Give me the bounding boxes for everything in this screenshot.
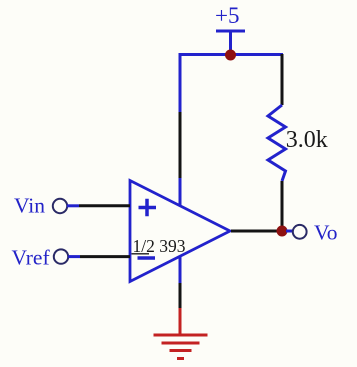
wire: op-amp V+ pin (blue upper) <box>179 53 182 112</box>
wire: Vin to op-amp (black) <box>79 204 130 207</box>
junction dot on +5 rail <box>225 50 236 61</box>
wire: +5 stub down to rail <box>229 31 232 55</box>
junction dot at output node <box>277 226 288 237</box>
resistor R1 zigzag <box>268 105 286 181</box>
terminal Vo <box>293 225 307 239</box>
svg-text:1/2 393: 1/2 393 <box>133 236 186 256</box>
svg-text:3.0k: 3.0k <box>286 127 328 153</box>
svg-text:Vref: Vref <box>12 246 51 270</box>
wire: bottom feed (black) <box>179 283 182 308</box>
wire: op-amp V- pin (blue lower) <box>179 257 182 284</box>
wire: op-amp output to node (black) <box>231 230 282 233</box>
wire: Vref pin stub (blue) <box>68 255 80 258</box>
svg-text:Vo: Vo <box>314 221 338 245</box>
plus input marker <box>139 199 157 216</box>
wire: ground lead (red) <box>179 308 182 334</box>
wire: top rail <box>180 53 283 56</box>
wire: Vref to op-amp (black) <box>80 255 130 258</box>
svg-text:+5: +5 <box>215 3 239 28</box>
wire: resistor to output node (black) <box>281 181 284 231</box>
op-amp U1 (1/2 393) triangle <box>130 181 230 282</box>
wire: Vin pin stub (blue) <box>67 204 79 207</box>
wire: power feed mid segment (black) <box>179 112 182 178</box>
wire: pin entering op-amp top edge (blue) <box>179 178 182 205</box>
terminal Vref <box>54 249 68 263</box>
wire: rail down to resistor (black) <box>281 54 284 105</box>
terminal Vin <box>53 199 67 213</box>
power bar symbol <box>216 30 245 33</box>
wire: node stub to Vo terminal <box>286 230 293 233</box>
svg-text:Vin: Vin <box>14 194 45 218</box>
ground symbol <box>154 335 208 359</box>
underline of 1/2 <box>132 253 150 255</box>
minus input marker <box>138 256 156 260</box>
